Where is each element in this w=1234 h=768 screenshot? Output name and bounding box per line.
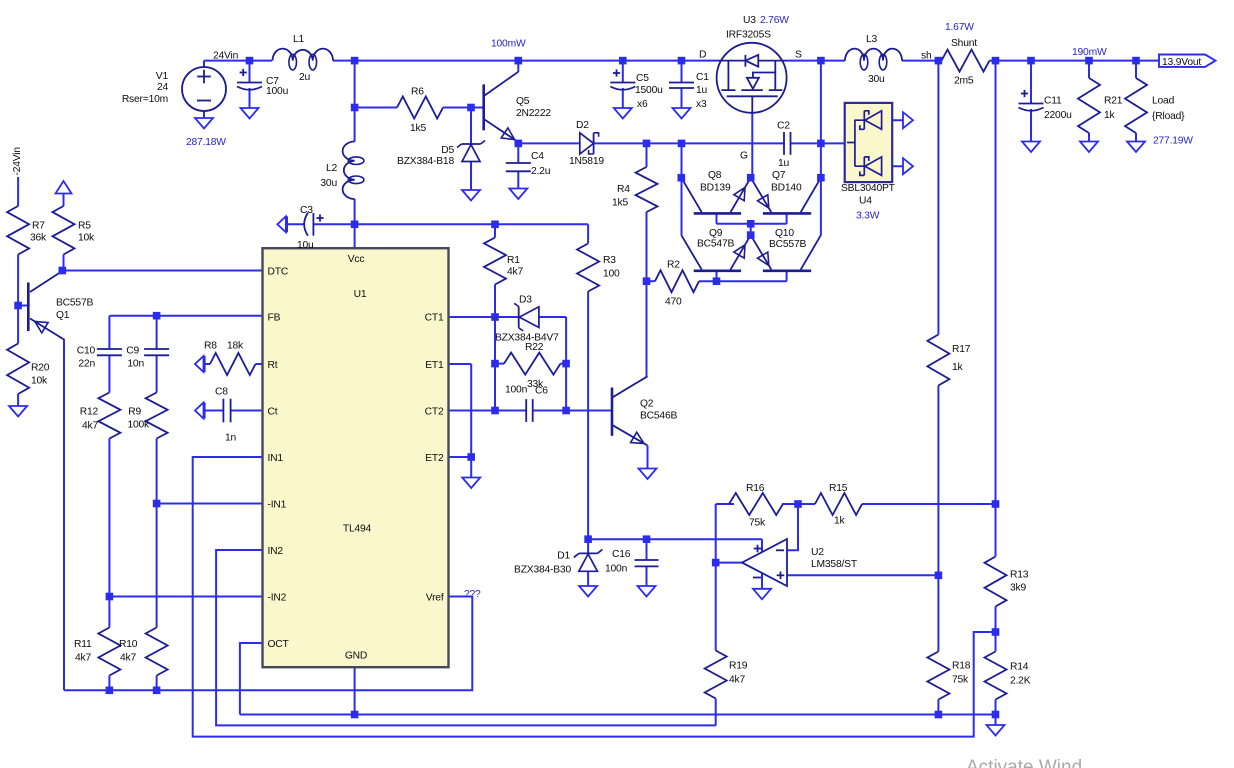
ground below R21 <box>1080 142 1098 153</box>
wire opamp non-inverting input to shunt column <box>787 574 938 576</box>
svg-text:2.2K: 2.2K <box>1010 676 1031 687</box>
resistor R4 <box>636 167 658 212</box>
svg-text:D5: D5 <box>441 145 454 156</box>
ground below V1 <box>195 118 213 129</box>
svg-text:R20: R20 <box>31 363 50 374</box>
svg-text:L3: L3 <box>866 34 878 45</box>
wire ET1 to ET2 link <box>449 363 472 365</box>
wire R7 bottom to Q1 base node <box>17 255 19 306</box>
svg-text:-IN2: -IN2 <box>268 593 287 604</box>
wire R6 row from L2 column to Q5 base <box>355 107 397 109</box>
wire L2 column from top rail with R6 tap <box>354 61 356 142</box>
wire Q5 collector stub to top rail <box>517 61 519 72</box>
wire D1/C16/opamp V+ row <box>588 538 762 540</box>
capacitor C1 <box>669 82 694 84</box>
svg-text:G: G <box>740 151 748 162</box>
svg-text:GND: GND <box>345 651 367 662</box>
svg-text:Rser=10m: Rser=10m <box>122 94 168 105</box>
U4 output port arrow 2 <box>903 158 913 174</box>
wire top rail: U3 source to L3 <box>787 60 846 62</box>
wire Q8/Q7 base tie row <box>716 213 718 223</box>
svg-text:CT1: CT1 <box>425 313 444 324</box>
ground below Q2 <box>639 469 657 480</box>
ground below R20 <box>9 406 27 417</box>
svg-text:100n: 100n <box>605 564 628 575</box>
resistor R18 <box>927 652 949 700</box>
svg-text:TL494: TL494 <box>343 524 372 535</box>
wire -IN1 row <box>157 503 263 505</box>
svg-text:BD140: BD140 <box>771 183 802 194</box>
resistor R20 <box>7 344 29 395</box>
svg-text:277.19W: 277.19W <box>1153 136 1193 147</box>
svg-text:R13: R13 <box>1010 570 1029 581</box>
svg-text:190mW: 190mW <box>1072 47 1107 58</box>
svg-text:1500u: 1500u <box>635 85 663 96</box>
svg-text:13.9Vout: 13.9Vout <box>1162 57 1201 68</box>
wire rail y224: C3/L2 node to R3 top <box>355 223 588 225</box>
wire -IN2 row <box>109 596 262 598</box>
ground below opamp <box>753 589 771 600</box>
resistor R5 <box>53 206 75 255</box>
svg-text:Q10: Q10 <box>775 228 794 239</box>
zener diode D3 BZX384-B4V7 <box>518 307 520 328</box>
ground arrow at C8 <box>195 403 204 419</box>
svg-text:1u: 1u <box>778 158 790 169</box>
svg-text:L1: L1 <box>293 34 305 45</box>
svg-text:2.76W: 2.76W <box>760 15 789 26</box>
svg-text:U2: U2 <box>811 547 824 558</box>
wire R16 leads <box>716 503 734 505</box>
wire Q5 emitter node down to C4 and D2 rail <box>517 142 519 163</box>
npn transistor Q9 BC547B <box>694 269 741 272</box>
zener diode D5 BZX384-B18 <box>462 143 481 145</box>
wire Vref loop to divider bottoms rail <box>64 597 472 691</box>
resistor R21 <box>1078 78 1100 133</box>
svg-text:C2: C2 <box>777 121 790 132</box>
ground below C16 <box>638 586 656 597</box>
wire Q1 base stub <box>18 305 28 307</box>
svg-text:22n: 22n <box>78 359 95 370</box>
svg-text:24: 24 <box>157 82 169 93</box>
inductor L3 <box>845 49 902 61</box>
svg-text:C8: C8 <box>215 387 228 398</box>
svg-text:V1: V1 <box>156 71 169 82</box>
resistor R16 <box>729 493 783 515</box>
svg-text:C5: C5 <box>636 73 649 84</box>
wire ground rail to R18/R14 bottoms <box>240 714 996 716</box>
wire V1 top lead <box>203 61 205 68</box>
wire C1 leads <box>681 61 683 83</box>
svg-text:1k: 1k <box>952 362 964 373</box>
wire C11 leads <box>1030 61 1032 104</box>
svg-text:2u: 2u <box>299 72 311 83</box>
capacitor C2 <box>783 132 785 155</box>
wire D3/R22/C6 right column <box>565 317 567 411</box>
svg-text:Q9: Q9 <box>709 228 723 239</box>
wire shunt column (sh) down through R17 to R18 and opamp + <box>937 61 939 335</box>
capacitor C5 <box>610 82 635 84</box>
schottky dual diode internals of U4 <box>847 111 882 176</box>
wire Load resistor leads <box>1135 61 1137 78</box>
svg-text:100u: 100u <box>266 86 289 97</box>
wire DTC row from R5/Q1 node <box>62 270 262 272</box>
capacitor C6 <box>525 399 527 422</box>
npn transistor Q8 BD139 <box>694 212 741 215</box>
wire R16 left column down through output to R19 <box>715 504 717 651</box>
ground below C4 <box>509 189 527 200</box>
svg-text:C3: C3 <box>300 205 313 216</box>
svg-text:D3: D3 <box>519 295 532 306</box>
svg-text:4k7: 4k7 <box>120 653 136 664</box>
svg-text:10n: 10n <box>127 359 144 370</box>
ground below ET2 <box>462 478 480 489</box>
svg-text:R11: R11 <box>74 639 92 650</box>
capacitor C11 <box>1019 103 1044 105</box>
svg-text:R22: R22 <box>525 342 544 353</box>
svg-text:4k7: 4k7 <box>729 675 745 686</box>
svg-text:Vref: Vref <box>426 593 444 604</box>
svg-text:U4: U4 <box>859 196 872 207</box>
wire rail y143: D2 cathode to C2 left plate <box>594 142 784 144</box>
svg-text:Activate Wind: Activate Wind <box>966 757 1082 768</box>
svg-text:R18: R18 <box>952 661 971 672</box>
svg-text:10k: 10k <box>78 233 95 244</box>
wire OCT loop to gnd rail <box>240 643 263 715</box>
wire R3 column down to D1 node <box>587 224 589 243</box>
svg-text:-IN1: -IN1 <box>268 500 287 511</box>
capacitor C10 <box>97 348 122 350</box>
svg-text:???: ??? <box>464 589 481 600</box>
ground below C1 <box>673 108 691 119</box>
svg-text:Load: Load <box>1152 96 1175 107</box>
wire -24Vin flag lead to R7 <box>17 177 19 206</box>
inductor L1 <box>273 49 334 61</box>
svg-text:C16: C16 <box>612 549 631 560</box>
svg-text:R17: R17 <box>952 344 971 355</box>
wire FB row <box>109 315 262 317</box>
wire opamp V- stub to ground <box>761 573 763 589</box>
svg-text:FB: FB <box>268 313 281 324</box>
ground below Load <box>1127 142 1145 153</box>
svg-text:U3: U3 <box>743 15 756 26</box>
ground arrow at C3 <box>277 216 286 232</box>
svg-text:D1: D1 <box>557 551 570 562</box>
svg-text:Q7: Q7 <box>772 170 786 181</box>
svg-text:4k7: 4k7 <box>507 267 523 278</box>
svg-text:10u: 10u <box>297 240 314 251</box>
mosfet U3 IRF3205S <box>717 43 787 113</box>
svg-text:R16: R16 <box>746 483 765 494</box>
svg-text:R8: R8 <box>204 341 217 352</box>
wire top rail: shunt to 13.9Vout flag <box>990 60 1160 62</box>
svg-text:CT2: CT2 <box>425 407 444 418</box>
inductor L2 <box>343 142 355 200</box>
svg-text:-24Vin: -24Vin <box>12 147 23 176</box>
capacitor C3 <box>304 213 308 236</box>
svg-text:3.3W: 3.3W <box>856 211 880 222</box>
wire C5 leads <box>622 61 624 83</box>
schottky diode D2 1N5819 <box>580 133 594 154</box>
svg-text:OCT: OCT <box>268 639 290 650</box>
svg-text:S: S <box>795 50 802 61</box>
svg-text:4k7: 4k7 <box>75 653 91 664</box>
svg-text:R3: R3 <box>603 255 616 266</box>
wire R4 column: rail y143 to R2 node and Q2 collector <box>646 143 648 167</box>
svg-text:BC557B: BC557B <box>769 239 806 250</box>
svg-text:75k: 75k <box>749 518 766 529</box>
svg-text:C4: C4 <box>531 151 544 162</box>
wire ET2 stub and ground stem <box>449 456 472 458</box>
wire D5 column from Q5 base <box>470 108 472 145</box>
resistor R7 <box>7 206 29 255</box>
resistor R9 <box>146 393 168 439</box>
svg-text:D: D <box>699 50 706 61</box>
svg-text:IN2: IN2 <box>268 546 284 557</box>
ground below R14 <box>987 725 1005 736</box>
wire out column down through R15 node, R13, R14 to gnd <box>995 61 997 557</box>
svg-text:1k5: 1k5 <box>612 198 628 209</box>
resistor R1 <box>484 238 506 285</box>
wire rail y143: C2 right plate to U4 input <box>791 142 847 144</box>
resistor Shunt 2m5 <box>942 50 990 72</box>
svg-text:R1: R1 <box>507 255 520 266</box>
resistor R11 <box>98 628 120 676</box>
svg-text:1.67W: 1.67W <box>945 22 974 33</box>
wire Q1 emitter column down to Vref rail <box>63 339 65 690</box>
ground arrow at R8 <box>195 356 204 372</box>
svg-text:1k: 1k <box>834 516 846 527</box>
svg-text:{Rload}: {Rload} <box>1152 111 1185 122</box>
svg-text:BZX384-B18: BZX384-B18 <box>397 156 454 167</box>
svg-text:24Vin: 24Vin <box>213 51 239 62</box>
svg-text:R5: R5 <box>78 221 91 232</box>
svg-text:L2: L2 <box>326 163 338 174</box>
wire Q2 emitter to ground <box>647 446 649 469</box>
svg-text:R12: R12 <box>80 407 99 418</box>
svg-text:36k: 36k <box>30 233 47 244</box>
wire IN2 loop to R19 bottom <box>216 550 716 725</box>
svg-text:10k: 10k <box>31 376 48 387</box>
ground below C5 <box>614 108 632 119</box>
svg-text:R15: R15 <box>829 483 848 494</box>
opamp U2 LM358/ST <box>742 539 787 586</box>
transistor Q5 2N2222 <box>482 84 485 130</box>
svg-text:4k7: 4k7 <box>82 421 98 432</box>
svg-text:100n: 100n <box>505 385 528 396</box>
svg-text:1n: 1n <box>225 433 237 444</box>
svg-text:100mW: 100mW <box>491 39 526 50</box>
svg-text:ET1: ET1 <box>425 360 444 371</box>
ground below D5 <box>462 190 480 201</box>
svg-text:18k: 18k <box>227 341 244 352</box>
svg-text:287.18W: 287.18W <box>186 137 226 148</box>
svg-text:R4: R4 <box>617 184 630 195</box>
svg-text:R6: R6 <box>411 87 424 98</box>
svg-text:Ct: Ct <box>268 407 278 418</box>
resistor R3 <box>577 244 599 292</box>
svg-text:C10: C10 <box>77 346 96 357</box>
wire D1 leads <box>587 539 589 553</box>
svg-text:C11: C11 <box>1044 96 1062 107</box>
wire top rail: L3 to shunt (node sh) <box>902 60 942 62</box>
resistor R17 <box>927 335 949 386</box>
svg-text:100: 100 <box>603 269 620 280</box>
U4 output port arrow 1 <box>903 112 913 128</box>
svg-text:C6: C6 <box>535 386 548 397</box>
wire IN1 loop to R13/R14 divider <box>193 457 996 737</box>
resistor R12 <box>98 393 120 439</box>
pnp transistor Q1 BC557B <box>27 283 30 332</box>
wire R5 bottom lead <box>63 255 65 271</box>
svg-text:R14: R14 <box>1010 662 1029 673</box>
output flag 13.9Vout <box>1159 55 1216 67</box>
svg-text:BC546B: BC546B <box>640 411 677 422</box>
svg-text:R21: R21 <box>1104 96 1123 107</box>
svg-text:30u: 30u <box>868 74 885 85</box>
svg-text:SBL3040PT: SBL3040PT <box>841 183 896 194</box>
capacitor C4 <box>506 162 531 164</box>
wire rail y143: Q5 emitter to D2 anode <box>518 142 580 144</box>
resistor R14 <box>985 652 1007 700</box>
svg-text:U1: U1 <box>354 289 367 300</box>
svg-text:3k9: 3k9 <box>1010 583 1026 594</box>
resistor R22 <box>504 353 561 375</box>
svg-text:IRF3205S: IRF3205S <box>726 30 771 41</box>
svg-text:C9: C9 <box>126 346 139 357</box>
svg-text:C1: C1 <box>696 72 709 83</box>
svg-text:R19: R19 <box>729 661 748 672</box>
wire D3 anode to right column <box>539 316 566 318</box>
pnp transistor Q10 BC557B <box>763 269 811 272</box>
wire CT1 row to D3 <box>449 316 520 318</box>
svg-text:Q5: Q5 <box>516 96 530 107</box>
wire CT2 row with C6 to Q2 base <box>449 410 527 412</box>
svg-text:Shunt: Shunt <box>951 38 977 49</box>
svg-text:75k: 75k <box>952 675 969 686</box>
wire V1 bottom lead to ground <box>203 111 205 118</box>
svg-text:ET2: ET2 <box>425 453 444 464</box>
wire L2 bottom to Vcc pin of U1 <box>354 199 356 249</box>
wire C16 leads <box>646 539 648 560</box>
svg-text:1N5819: 1N5819 <box>569 156 604 167</box>
wire Ct row with C8 <box>203 410 223 412</box>
svg-text:30u: 30u <box>320 178 337 189</box>
resistor R2 <box>655 270 699 292</box>
wire Q9/Q10 base tie row <box>716 271 718 281</box>
svg-text:R7: R7 <box>32 221 45 232</box>
svg-text:Vcc: Vcc <box>348 254 365 265</box>
svg-text:Rt: Rt <box>268 360 278 371</box>
wire R20 column to ground <box>17 306 19 344</box>
capacitor C9 <box>144 348 169 350</box>
transistor Q2 BC546B <box>611 388 614 436</box>
svg-text:2N2222: 2N2222 <box>516 108 551 119</box>
wire D3/R22/C6 left column <box>494 317 496 411</box>
wire gnd flag stem below R14 <box>995 715 997 726</box>
wire R15 right lead to out column <box>862 503 996 505</box>
resistor R19 <box>705 651 727 699</box>
wire top rail left: V1 to L1 <box>204 60 272 62</box>
wire U3 gate column (node G) <box>751 113 753 178</box>
zener diode D1 BZX384-B30 <box>579 552 598 554</box>
svg-text:470: 470 <box>665 297 682 308</box>
wire C7 leads <box>249 61 251 83</box>
svg-text:R2: R2 <box>667 260 680 271</box>
capacitor C7 <box>237 82 262 84</box>
capacitor C8 <box>222 399 224 423</box>
IC U1 TL494 body <box>263 248 449 667</box>
wire Rt row with R8 <box>203 363 210 365</box>
wire top rail: L1 to U3 drain <box>333 60 717 62</box>
wire C9/R9/R10 column <box>156 316 158 349</box>
wire R5 top flag lead <box>63 193 65 206</box>
resistor R13 <box>985 557 1007 607</box>
svg-text:DTC: DTC <box>268 267 289 278</box>
svg-text:LM358/ST: LM358/ST <box>811 559 858 570</box>
svg-text:2.2u: 2.2u <box>531 166 551 177</box>
svg-text:100k: 100k <box>127 420 150 431</box>
svg-text:IN1: IN1 <box>268 453 284 464</box>
svg-text:1u: 1u <box>696 85 708 96</box>
IC U4 SBL3040PT body <box>845 103 893 182</box>
svg-text:sh: sh <box>921 51 932 62</box>
pnp transistor Q7 BD140 <box>763 212 811 215</box>
resistor R8 18k <box>210 353 256 375</box>
resistor Load {Rload} <box>1125 78 1147 133</box>
up flag arrow above R5 <box>56 181 72 194</box>
svg-text:BC557B: BC557B <box>56 298 93 309</box>
wire link Q8/Q7 bases to Q9/Q10 emitters <box>750 224 752 235</box>
svg-text:R10: R10 <box>119 639 138 650</box>
wire C3 leads <box>288 223 305 225</box>
svg-text:BD139: BD139 <box>700 183 731 194</box>
wire GND pin stem <box>354 667 356 715</box>
voltage source V1 <box>182 67 226 111</box>
svg-text:2200u: 2200u <box>1044 110 1072 121</box>
wire C10/R12/R11 column <box>108 316 110 349</box>
wire R21 leads <box>1088 61 1090 78</box>
resistor R10 <box>146 628 168 676</box>
wire R1 column from rail y224 to CT1 <box>494 224 496 237</box>
wire R22 leads <box>495 363 504 365</box>
ground below D1 <box>579 586 597 597</box>
svg-text:2m5: 2m5 <box>954 76 974 87</box>
ground below C7 <box>241 108 259 119</box>
svg-text:R9: R9 <box>128 407 141 418</box>
wire U4 output diode 2 to port arrow <box>882 165 903 167</box>
svg-text:1k5: 1k5 <box>410 123 426 134</box>
svg-text:Q2: Q2 <box>640 399 654 410</box>
svg-text:BZX384-B30: BZX384-B30 <box>514 565 571 576</box>
svg-text:x6: x6 <box>637 99 648 110</box>
wire U4 output diode 1 to port arrow <box>882 119 903 121</box>
svg-text:1k: 1k <box>1104 110 1116 121</box>
svg-text:Q8: Q8 <box>708 170 722 181</box>
wire opamp output to R16/R19 column <box>716 562 742 564</box>
capacitor C16 <box>635 559 659 561</box>
wire Q8/Q9 collector column from C1 node <box>681 143 683 235</box>
svg-text:Q1: Q1 <box>56 310 70 321</box>
svg-text:BC547B: BC547B <box>697 239 734 250</box>
ground below C11 <box>1022 142 1040 153</box>
svg-text:D2: D2 <box>576 120 589 131</box>
wire Q7/Q10 collector column from source rail <box>820 61 822 236</box>
wire opamp inverting input to R16/R15 node <box>787 504 798 550</box>
resistor R15 <box>815 493 862 515</box>
resistor R6 <box>397 97 443 119</box>
svg-text:x3: x3 <box>696 99 707 110</box>
wire R2 leads <box>647 280 656 282</box>
